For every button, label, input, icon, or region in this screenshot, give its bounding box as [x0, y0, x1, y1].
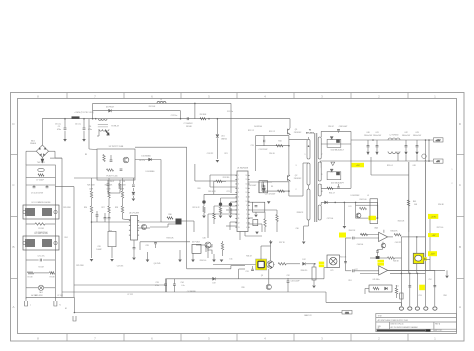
resistor R26a: [90, 191, 92, 198]
wire long net B: [424, 162, 426, 270]
svg-text:R4 47: R4 47: [110, 181, 115, 183]
svg-text:5: 5: [246, 222, 247, 224]
wire: [304, 225, 309, 227]
wire: [350, 131, 352, 144]
junction: [208, 118, 210, 120]
wire: [376, 140, 378, 145]
resistor R28a: [121, 191, 123, 198]
wire: [320, 131, 322, 137]
wire: [213, 206, 215, 213]
svg-text:R2 1M: R2 1M: [39, 267, 45, 269]
wire: [320, 162, 322, 168]
wire: [92, 103, 94, 118]
transformer T1 secondary 2: [318, 162, 321, 181]
svg-text:R2 1M: R2 1M: [28, 276, 33, 278]
wire: [248, 217, 253, 219]
svg-text:TITLE: TITLE: [378, 316, 382, 318]
wire: [207, 248, 209, 258]
wire: [179, 250, 181, 260]
resistor array RA1: [108, 231, 116, 246]
svg-text:R22 4.7K: R22 4.7K: [192, 207, 200, 209]
IC U1 pin numbers: [238, 175, 248, 229]
capacitor C47: [344, 262, 347, 263]
common-mode choke LF1: [23, 205, 59, 219]
svg-text:C12 10u: C12 10u: [171, 115, 177, 117]
wire: [213, 181, 215, 194]
component box: [259, 181, 268, 193]
wire: [405, 147, 407, 151]
wire: [139, 242, 141, 250]
wire mid bus: [166, 278, 239, 280]
wire: [41, 157, 43, 159]
svg-text:C31: C31: [245, 271, 248, 273]
wire: [416, 147, 418, 151]
svg-text:R36 470: R36 470: [301, 270, 307, 272]
svg-text:11: 11: [238, 218, 240, 220]
resistor R40: [360, 207, 367, 209]
wire: [229, 206, 231, 207]
ground: [146, 260, 150, 263]
capacitor C15: [262, 185, 263, 188]
wire: [26, 287, 38, 289]
svg-text:D1 FR107: D1 FR107: [106, 106, 114, 108]
wire: [83, 131, 85, 139]
svg-text:U3 TNY277 5VSB: U3 TNY277 5VSB: [109, 146, 124, 148]
svg-text:R10: R10: [278, 141, 281, 143]
transistor Q8: [267, 261, 274, 269]
transformer T1 core: [315, 133, 317, 222]
wire: [261, 182, 263, 191]
svg-text:1: 1: [305, 154, 306, 156]
transformer T1 secondary 4: [318, 205, 321, 220]
wire: [26, 259, 39, 261]
svg-text:470u: 470u: [88, 129, 92, 131]
wire: [388, 236, 393, 238]
wire: [64, 119, 66, 128]
lamp LP1 box: [327, 255, 340, 268]
wire: [209, 175, 211, 187]
svg-text:R9 150K: R9 150K: [149, 106, 156, 108]
svg-text:R55 0.1: R55 0.1: [387, 165, 393, 167]
highlight label +3.3V: [428, 214, 438, 219]
wire: [26, 184, 55, 186]
wire: [138, 227, 151, 229]
wire: [264, 227, 266, 232]
thermistor NTC1: [38, 168, 45, 171]
junction: [288, 190, 290, 192]
highlight label b: [378, 263, 385, 266]
wire: [155, 241, 157, 244]
wire: [44, 287, 56, 289]
wire: [244, 232, 246, 237]
wire: [276, 222, 278, 233]
wire: [380, 257, 388, 259]
ground: [445, 276, 449, 279]
wire sec top: [321, 130, 351, 132]
ground: [343, 226, 347, 229]
svg-text:R37 1K: R37 1K: [279, 242, 286, 244]
svg-text:R56 3K: R56 3K: [438, 204, 445, 206]
svg-text:NE1: NE1: [39, 292, 42, 294]
wire: [107, 186, 109, 191]
wire +12V rail: [351, 139, 433, 141]
svg-text:R3 1M: R3 1M: [50, 276, 55, 278]
svg-text:R26 150K: R26 150K: [87, 184, 95, 186]
wire: [434, 270, 436, 306]
svg-text:IC3: IC3: [349, 206, 352, 208]
svg-text:ZD1: ZD1: [221, 136, 224, 138]
capacitor C38: [337, 130, 340, 131]
wire: [405, 155, 407, 161]
wire: [229, 222, 231, 230]
wire: [302, 163, 304, 196]
svg-text:R3: R3: [85, 154, 87, 156]
wire: [182, 220, 195, 222]
transformer T1 primary upper: [307, 139, 310, 159]
highlight box Q8: [256, 259, 267, 270]
resistor R51: [373, 287, 379, 289]
svg-text:4: 4: [246, 227, 247, 229]
svg-text:R25 220K: R25 220K: [76, 265, 84, 267]
wire aux: [321, 201, 377, 203]
wire: [230, 201, 237, 203]
svg-text:R48 1K: R48 1K: [393, 261, 400, 263]
wire: [319, 161, 321, 162]
title block dark blob: [425, 329, 430, 331]
svg-text:C28: C28: [145, 245, 148, 247]
wire earth bus: [74, 312, 342, 314]
wire: [83, 119, 85, 128]
junction: [194, 103, 196, 105]
wire: [308, 220, 310, 226]
svg-text:12: 12: [246, 192, 248, 194]
title block: [376, 314, 457, 332]
transformer T1 primary mid: [307, 163, 310, 185]
ground: [202, 216, 206, 219]
wire: [91, 178, 93, 191]
svg-text:L4 4.7u: L4 4.7u: [139, 160, 145, 162]
capacitor C53: [353, 269, 354, 272]
wire: [203, 194, 205, 200]
svg-text:R12 2.2: R12 2.2: [248, 130, 254, 132]
svg-text:R35 47: R35 47: [246, 256, 252, 258]
capacitor C7: [187, 117, 188, 120]
wire: [155, 244, 157, 248]
junction: [344, 202, 346, 204]
transformer T3 secondary: [99, 129, 109, 131]
resistor R17: [203, 207, 205, 213]
wire: [173, 279, 175, 284]
capacitor C10: [120, 169, 123, 170]
wire: [248, 181, 272, 183]
svg-text:C51: C51: [395, 286, 398, 288]
svg-text:11: 11: [246, 197, 248, 199]
svg-text:PC817 TL431: PC817 TL431: [106, 176, 117, 178]
wire: [395, 257, 402, 259]
wire: [306, 263, 315, 265]
wire long net: [186, 147, 188, 240]
svg-text:2: 2: [238, 179, 239, 181]
svg-text:10: 10: [246, 201, 248, 203]
component box: [253, 220, 258, 226]
wire: [91, 217, 93, 258]
capacitor C18: [255, 206, 258, 207]
wire: [381, 248, 383, 250]
wire: [203, 213, 205, 216]
transformer T1 primary lower: [307, 189, 310, 220]
wire: [43, 259, 55, 261]
svg-text:D5: D5: [271, 186, 273, 188]
wire: [210, 186, 237, 188]
svg-text:C38 1000P: C38 1000P: [339, 126, 348, 128]
wire 5vsb top: [135, 146, 187, 148]
inrush limiter box: [26, 165, 55, 178]
wire: [104, 219, 106, 222]
svg-text:R27: R27: [101, 207, 104, 209]
wire: [400, 273, 402, 306]
net label 310V tag: [72, 116, 80, 118]
svg-text:SHEET 1 OF 1: SHEET 1 OF 1: [433, 330, 442, 332]
wire: [367, 147, 369, 151]
svg-text:D12: D12: [302, 259, 305, 261]
wire: [140, 241, 190, 243]
diode D12: [303, 262, 306, 265]
optocoupler U5: [192, 244, 201, 253]
wire: [365, 288, 369, 290]
wire: [54, 297, 56, 301]
mosfet Q7: [206, 244, 212, 254]
ground: [255, 232, 259, 235]
wire feed: [74, 177, 135, 179]
wire: [287, 278, 289, 281]
svg-text:R54 4.7: R54 4.7: [329, 193, 335, 195]
svg-text:B: B: [12, 245, 14, 249]
ground: [312, 286, 316, 289]
IC U1 KA7500 PWM: [235, 171, 249, 232]
wire +310V rail: [42, 118, 290, 120]
svg-text:12: 12: [238, 222, 240, 224]
wire: [207, 214, 209, 238]
svg-text:R44 15K: R44 15K: [349, 230, 356, 232]
resistor R9b: [200, 118, 206, 120]
capacitor C24: [104, 218, 107, 219]
wire: [338, 131, 340, 132]
connector tag CN1: [342, 310, 352, 314]
diode D1: [109, 109, 112, 112]
svg-text:C30: C30: [202, 238, 205, 240]
svg-text:15: 15: [246, 179, 248, 181]
ground: [191, 260, 195, 263]
ground: [178, 260, 182, 263]
diode D18: [385, 287, 388, 290]
wire: [376, 147, 378, 151]
svg-text:C32 1000P: C32 1000P: [291, 281, 301, 283]
wire: [289, 138, 307, 140]
resistor R5: [103, 155, 105, 162]
wire: [166, 279, 168, 292]
wire: [323, 268, 325, 279]
ground: [267, 201, 271, 204]
svg-text:R28: R28: [115, 207, 118, 209]
svg-text:R41 100: R41 100: [360, 199, 367, 201]
rectifier D14 dark: [336, 139, 340, 142]
wire sec bottom: [321, 187, 351, 189]
svg-text:R30: R30: [168, 214, 171, 216]
wire: [313, 280, 315, 285]
svg-text:U5 PC817: U5 PC817: [192, 242, 200, 244]
wire: [49, 150, 56, 152]
wire: [400, 302, 402, 306]
capacitor C23: [96, 215, 99, 216]
svg-text:FAN 12V: FAN 12V: [304, 314, 312, 317]
svg-text:R42 10K: R42 10K: [340, 257, 347, 259]
wire: [135, 159, 161, 161]
wire: [446, 270, 448, 275]
capacitor C22: [132, 185, 135, 186]
wire: [416, 237, 418, 274]
wire +5V rail: [320, 160, 433, 162]
svg-text:470u: 470u: [57, 129, 61, 131]
wire: [133, 249, 135, 257]
svg-text:CY 222: CY 222: [127, 294, 133, 296]
wire stub: [230, 221, 237, 223]
highlight label a: [378, 260, 385, 263]
capacitor C32: [287, 281, 290, 282]
diode D16: [325, 201, 328, 204]
wire: [308, 185, 310, 189]
svg-text:16: 16: [246, 175, 248, 177]
svg-text:3: 3: [296, 165, 297, 167]
resistor R19x: [229, 208, 231, 214]
wire rail B+: [73, 187, 75, 298]
svg-text:D11: D11: [230, 259, 233, 261]
ground: [216, 160, 220, 163]
highlight label +5V: [352, 163, 365, 168]
svg-text:R51: R51: [348, 280, 351, 282]
junction: [425, 139, 427, 141]
capacitor CY1: [46, 187, 49, 188]
svg-text:R39: R39: [241, 287, 244, 289]
wire: [165, 286, 167, 293]
wire: [119, 190, 121, 194]
junction: [372, 139, 374, 141]
svg-text:E1: E1: [35, 295, 37, 297]
svg-text:CX 0.47u: CX 0.47u: [37, 256, 44, 258]
svg-text:+3.3V: +3.3V: [431, 216, 437, 218]
svg-text:E1: E1: [65, 308, 67, 310]
svg-text:11: 11: [321, 191, 323, 193]
capacitor C16: [262, 187, 265, 189]
wire out2: [388, 269, 445, 271]
svg-text:R8 56K: R8 56K: [186, 126, 193, 128]
wire: [45, 223, 55, 225]
wire: [382, 242, 384, 244]
wire: [408, 206, 410, 232]
svg-text:13: 13: [238, 227, 240, 229]
wire: [416, 273, 418, 306]
transistor Q9: [266, 284, 271, 289]
rect loop: [327, 139, 341, 147]
wire: [33, 185, 35, 187]
svg-text:C13 2200P: C13 2200P: [259, 149, 269, 151]
wire in+: [354, 270, 379, 272]
svg-text:C3 0.1u: C3 0.1u: [55, 124, 61, 126]
ground: [219, 216, 223, 219]
diode D8 dark top: [229, 203, 232, 206]
ground sec: [331, 162, 335, 166]
svg-text:+310V (TO PFC CKT): +310V (TO PFC CKT): [74, 112, 94, 114]
svg-text:7: 7: [246, 214, 247, 216]
wire: [409, 273, 411, 306]
svg-text:Q6 C945: Q6 C945: [154, 263, 161, 265]
wire: [262, 181, 289, 183]
wire: [400, 237, 402, 274]
resistor R26b: [90, 206, 92, 213]
wire: [160, 160, 162, 223]
svg-text:6: 6: [238, 197, 239, 199]
wire: [397, 152, 399, 162]
junction: [416, 236, 418, 238]
op-amp U6A: [379, 232, 388, 241]
wire bottom bus 2: [74, 284, 166, 286]
wire: [429, 256, 431, 270]
capacitor C51: [408, 286, 411, 287]
wire standby top: [93, 102, 231, 104]
resistor R18: [219, 207, 221, 213]
wire: [229, 214, 231, 216]
ground: [302, 242, 306, 245]
wire: [383, 230, 385, 233]
wire: [96, 216, 98, 222]
junction: [92, 118, 94, 120]
wire: [165, 279, 167, 284]
svg-text:R46 47K: R46 47K: [391, 230, 399, 232]
svg-text:R24: R24: [64, 237, 67, 239]
wire: [248, 201, 253, 203]
svg-text:R20: R20: [197, 188, 200, 190]
capacitor C45x: [353, 237, 354, 240]
wire: [132, 196, 134, 198]
junction: [217, 118, 219, 120]
wire: [216, 138, 218, 159]
svg-text:3: 3: [238, 184, 239, 186]
svg-text:10: 10: [238, 214, 240, 216]
wire: [180, 111, 182, 119]
svg-text:ATX-0012: ATX-0012: [306, 131, 314, 134]
wire: [122, 178, 124, 191]
svg-text:DWG NO: LPK2-25: DWG NO: LPK2-25: [391, 323, 404, 325]
junction: [428, 139, 430, 141]
svg-text:R28 150K: R28 150K: [118, 184, 126, 186]
wire: [119, 180, 121, 184]
capacitor C8: [107, 184, 110, 185]
wire: [258, 182, 260, 193]
ground: [220, 260, 224, 263]
highlight label fb: [339, 233, 346, 238]
wire: [26, 150, 36, 152]
resistor R10: [276, 145, 283, 147]
wire: [204, 193, 237, 195]
wire: [26, 223, 35, 225]
svg-text:3300u/10V: 3300u/10V: [413, 135, 422, 137]
capacitor C14: [264, 185, 265, 188]
svg-text:2SC4242: 2SC4242: [294, 178, 302, 180]
svg-text:C11 10u: C11 10u: [227, 111, 233, 113]
transistor Q5: [123, 157, 129, 163]
wire: [287, 283, 289, 293]
resistor R52: [395, 288, 397, 294]
wire primary rail: [288, 136, 290, 176]
